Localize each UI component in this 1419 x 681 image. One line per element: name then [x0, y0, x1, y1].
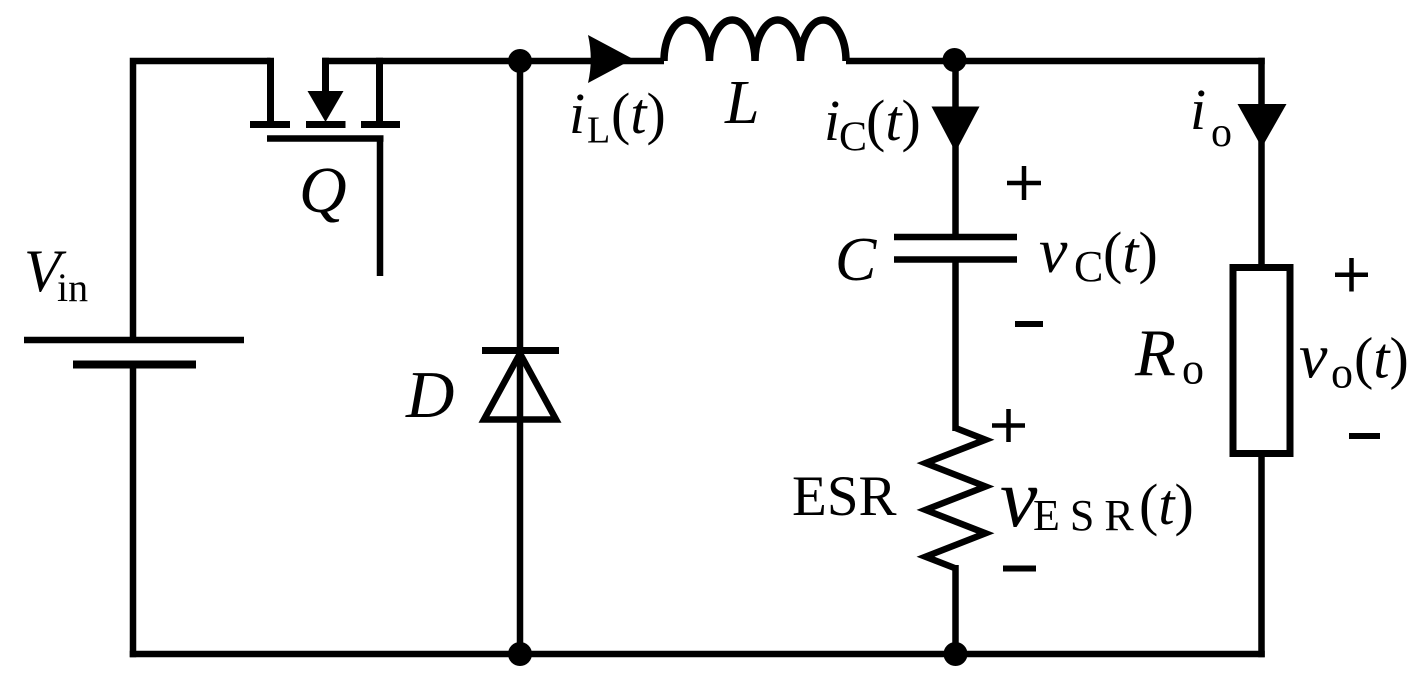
node diode bottom junction dot [508, 642, 532, 666]
arrow iC current [932, 107, 980, 153]
plus sign ESR [992, 409, 1025, 442]
transistor Q left terminal [250, 58, 290, 125]
wire top-left (battery to MOSFET source) [130, 58, 271, 341]
svg-text:v: v [1299, 321, 1328, 392]
svg-text:L: L [587, 110, 610, 152]
svg-text:D: D [405, 358, 454, 432]
svg-text:L: L [724, 69, 759, 137]
svg-text:(t): (t) [866, 88, 921, 153]
minus sign vo [1349, 433, 1380, 439]
svg-text:C: C [835, 226, 877, 294]
transistor Q gate bar [267, 135, 384, 142]
svg-text:ESR: ESR [792, 465, 897, 528]
battery Vin long plate [24, 337, 244, 344]
svg-text:i: i [1190, 77, 1206, 142]
wire output branch bottom [1258, 454, 1265, 658]
wire ESR bottom [952, 565, 959, 654]
svg-text:R: R [1134, 316, 1176, 390]
wire capacitor branch top [952, 58, 959, 234]
minus sign ESR [1003, 566, 1036, 572]
svg-text:i: i [569, 81, 585, 146]
wire battery bottom [130, 362, 137, 657]
transistor Q middle terminal with body arrow [306, 58, 346, 125]
plus sign vC [1007, 166, 1041, 200]
arrow io current [1238, 104, 1287, 148]
svg-text:o: o [1211, 110, 1232, 156]
transistor Q right terminal [361, 58, 400, 125]
resistor ESR zigzag [926, 428, 986, 568]
wire output branch top [1258, 58, 1265, 268]
svg-text:C: C [839, 115, 867, 161]
arrow iL current [588, 35, 633, 83]
capacitor C top plate [894, 234, 1017, 241]
capacitor C bottom plate [894, 256, 1017, 263]
svg-text:in: in [57, 265, 88, 310]
wire bottom rail [130, 651, 1265, 658]
diode D cathode bar [482, 347, 559, 354]
svg-text:o: o [1331, 349, 1353, 398]
diode D triangle [484, 354, 556, 420]
svg-text:i: i [824, 88, 840, 153]
inductor L [664, 20, 846, 61]
svg-text:(t): (t) [1139, 472, 1194, 537]
svg-text:Q: Q [299, 154, 347, 227]
wire diode branch [517, 58, 524, 654]
wire top rail (switch node to output node) [322, 58, 1265, 65]
svg-text:(t): (t) [1103, 220, 1158, 285]
wire capacitor to ESR [952, 262, 959, 431]
svg-text:C: C [1074, 242, 1103, 291]
svg-text:v: v [1039, 215, 1068, 286]
node ESR bottom junction dot [944, 642, 968, 666]
svg-text:(t): (t) [1354, 326, 1409, 391]
node inductor-output junction dot [943, 48, 967, 72]
minus sign vC [1015, 321, 1043, 327]
battery Vin short plate [73, 361, 196, 369]
transistor Q gate lead [377, 139, 384, 277]
plus sign vo [1335, 258, 1368, 292]
node switch junction dot [508, 49, 532, 73]
svg-text:o: o [1182, 345, 1204, 394]
svg-text:ESR: ESR [1033, 491, 1144, 540]
resistor Ro box [1233, 268, 1290, 454]
svg-text:(t): (t) [611, 81, 666, 146]
